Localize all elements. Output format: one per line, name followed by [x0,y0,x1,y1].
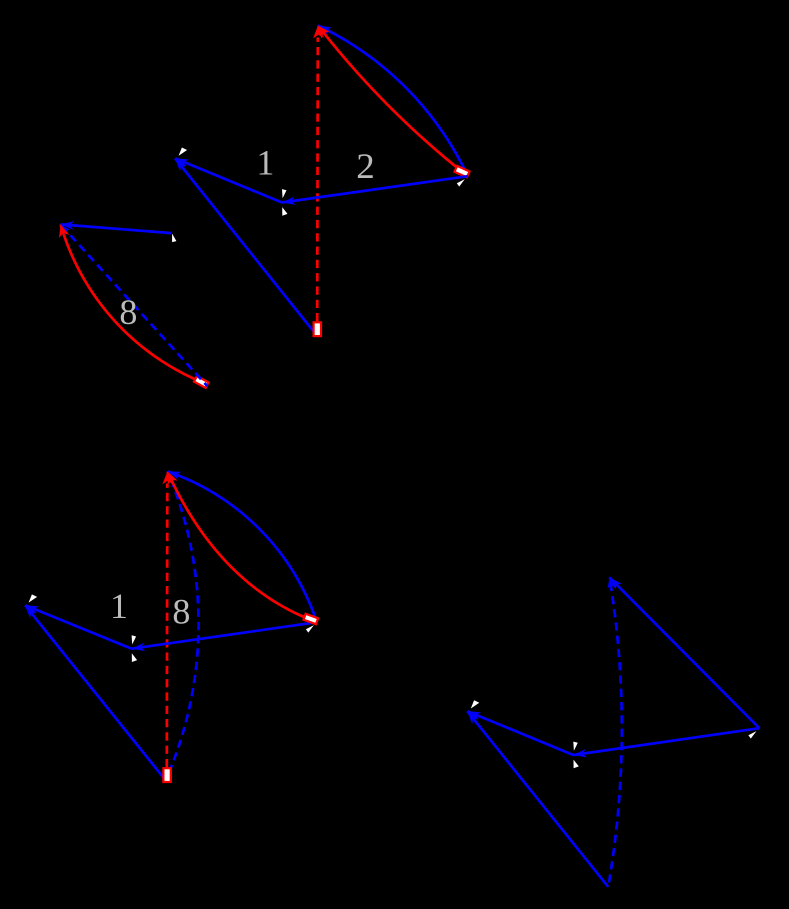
svg-text:8: 8 [119,292,137,332]
svg-text:2: 2 [356,146,375,186]
svg-text:1: 1 [110,586,128,626]
svg-text:8: 8 [172,592,190,632]
svg-text:1: 1 [256,143,274,183]
